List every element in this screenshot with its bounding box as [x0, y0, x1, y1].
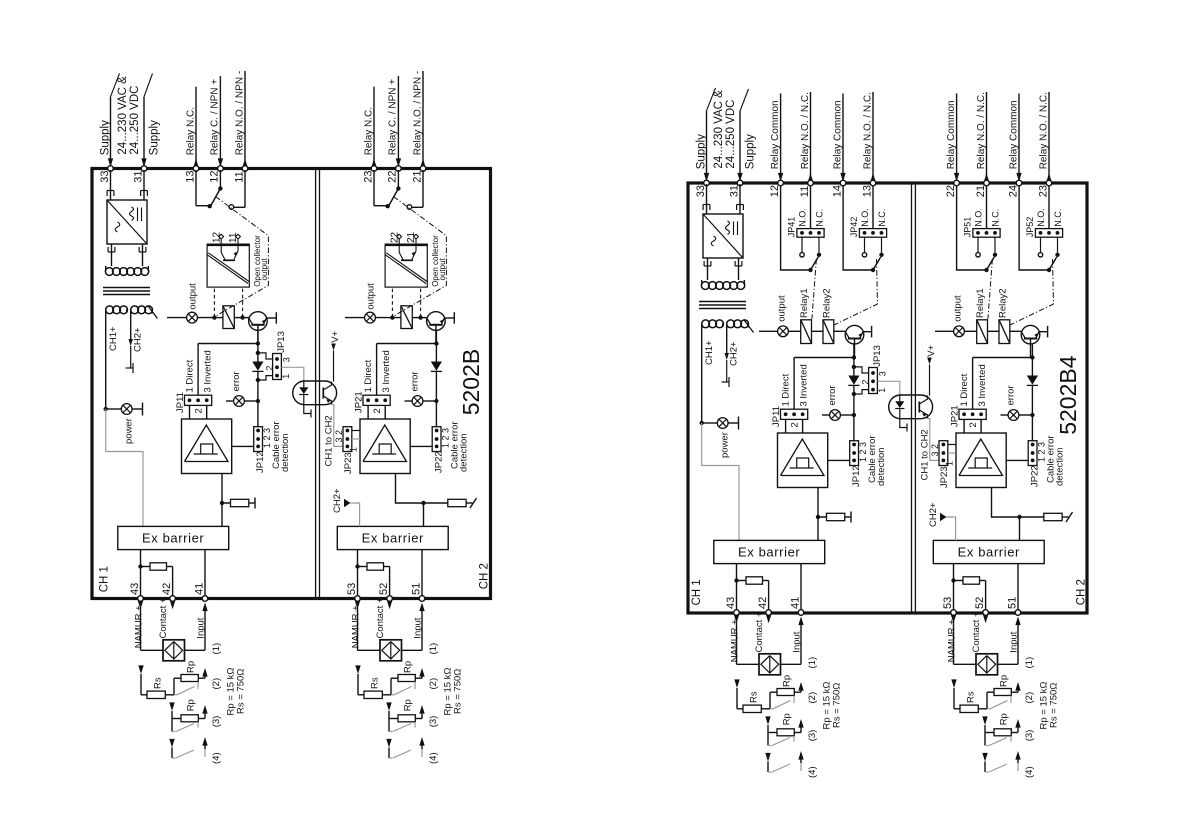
svg-text:3 2: 3 2: [334, 430, 344, 443]
svg-text:Supply: Supply: [695, 134, 707, 169]
svg-text:(4): (4): [428, 752, 439, 764]
svg-text:Relay C. / NPN +: Relay C. / NPN +: [210, 79, 221, 156]
svg-text:Relay N.O. / N.C.: Relay N.O. / N.C.: [862, 92, 873, 169]
svg-text:JP13: JP13: [872, 345, 883, 367]
svg-text:JP22: JP22: [433, 451, 444, 473]
svg-text:3 2: 3 2: [930, 444, 940, 457]
svg-text:JP52: JP52: [1025, 217, 1035, 238]
svg-text:Relay1: Relay1: [799, 288, 810, 318]
svg-text:V+: V+: [330, 330, 341, 342]
svg-text:(1): (1): [807, 657, 818, 669]
svg-text:N.O.: N.O.: [1036, 208, 1046, 227]
svg-text:JP11: JP11: [771, 406, 782, 427]
svg-text:JP11: JP11: [175, 392, 186, 413]
svg-text:(1): (1): [1024, 657, 1035, 669]
svg-text:52: 52: [974, 597, 986, 609]
svg-text:13: 13: [861, 185, 873, 197]
svg-text:output: output: [953, 295, 964, 322]
svg-text:(2): (2): [211, 678, 222, 690]
svg-text:CH2+: CH2+: [133, 327, 144, 352]
svg-text:NAMUR +: NAMUR +: [946, 619, 957, 662]
svg-text:Ex barrier: Ex barrier: [142, 531, 204, 546]
svg-text:detection: detection: [876, 447, 887, 486]
svg-text:N.C.: N.C.: [815, 209, 825, 227]
svg-text:11: 11: [228, 232, 239, 243]
svg-text:(1): (1): [211, 643, 222, 655]
svg-text:43: 43: [129, 583, 141, 595]
svg-text:(1): (1): [428, 643, 439, 655]
svg-text:51: 51: [1006, 597, 1018, 609]
svg-text:JP51: JP51: [962, 217, 972, 238]
svg-text:1: 1: [349, 447, 359, 452]
svg-text:NAMUR +: NAMUR +: [350, 605, 361, 648]
svg-text:CH 2: CH 2: [1075, 579, 1087, 605]
svg-text:CH1+: CH1+: [704, 340, 715, 365]
svg-text:Rp: Rp: [781, 713, 792, 725]
svg-text:3 Inverted: 3 Inverted: [381, 350, 392, 392]
svg-text:31: 31: [728, 185, 740, 197]
svg-text:N.O.: N.O.: [974, 208, 984, 227]
svg-text:JP13: JP13: [276, 331, 287, 353]
svg-text:(3): (3): [211, 716, 222, 728]
svg-text:error: error: [231, 371, 242, 391]
svg-text:Relay N.O. / N.C.: Relay N.O. / N.C.: [1038, 92, 1049, 169]
svg-text:detection: detection: [459, 433, 470, 472]
svg-text:1: 1: [281, 374, 291, 379]
svg-text:12: 12: [209, 170, 221, 182]
svg-text:Rs: Rs: [152, 677, 163, 689]
svg-text:(4): (4): [211, 752, 222, 764]
svg-text:Supply: Supply: [99, 120, 111, 155]
svg-text:Relay N.C.: Relay N.C.: [363, 107, 374, 155]
svg-text:31: 31: [132, 170, 144, 182]
svg-text:Relay N.C.: Relay N.C.: [185, 107, 196, 155]
svg-text:CH1+: CH1+: [108, 326, 119, 351]
svg-text:(3): (3): [807, 730, 818, 742]
svg-text:power: power: [720, 432, 731, 458]
svg-text:2: 2: [194, 408, 205, 413]
svg-text:CH 1: CH 1: [691, 579, 703, 605]
svg-text:Input: Input: [196, 617, 207, 638]
svg-text:41: 41: [193, 583, 205, 595]
svg-text:2: 2: [968, 422, 979, 427]
svg-text:output: output: [777, 295, 788, 322]
svg-text:53: 53: [346, 583, 358, 595]
svg-text:(2): (2): [1024, 692, 1035, 704]
svg-text:error: error: [410, 371, 421, 391]
svg-text:JP23: JP23: [343, 452, 354, 474]
svg-text:33: 33: [99, 170, 111, 182]
svg-text:CH 1: CH 1: [98, 566, 110, 592]
svg-text:NAMUR +: NAMUR +: [729, 619, 740, 662]
svg-text:14: 14: [831, 185, 843, 197]
svg-text:JP42: JP42: [849, 217, 859, 238]
svg-text:Relay N.O. / NPN -: Relay N.O. / NPN -: [234, 71, 245, 155]
svg-text:NAMUR +: NAMUR +: [133, 605, 144, 648]
svg-text:42: 42: [757, 597, 769, 609]
svg-text:(4): (4): [1024, 766, 1035, 778]
svg-text:3 Inverted: 3 Inverted: [798, 364, 809, 406]
svg-text:2: 2: [264, 366, 274, 371]
svg-text:detection: detection: [1055, 447, 1066, 486]
svg-text:Rp: Rp: [185, 661, 196, 673]
svg-text:N.O.: N.O.: [798, 208, 808, 227]
svg-text:JP41: JP41: [786, 217, 796, 238]
svg-text:JP22: JP22: [1029, 465, 1040, 487]
svg-text:1: 1: [877, 388, 887, 393]
svg-text:(3): (3): [428, 716, 439, 728]
svg-text:23: 23: [362, 170, 374, 182]
svg-text:2: 2: [372, 408, 383, 413]
svg-text:detection: detection: [280, 433, 291, 472]
svg-text:Relay C. / NPN +: Relay C. / NPN +: [388, 79, 399, 156]
svg-text:output: output: [366, 283, 377, 310]
svg-text:Input: Input: [792, 631, 803, 652]
svg-text:2: 2: [790, 422, 801, 427]
svg-text:Contact +: Contact +: [158, 597, 169, 638]
svg-text:JP21: JP21: [950, 405, 961, 427]
svg-text:(4): (4): [807, 766, 818, 778]
svg-text:N.C.: N.C.: [1053, 209, 1063, 227]
svg-text:1 Direct: 1 Direct: [184, 359, 195, 392]
svg-text:12: 12: [211, 231, 222, 243]
svg-text:Relay Common: Relay Common: [770, 100, 781, 169]
svg-text:51: 51: [410, 583, 422, 595]
svg-text:N.C.: N.C.: [991, 209, 1001, 227]
svg-text:CH2+: CH2+: [332, 488, 343, 513]
svg-text:Rs: Rs: [369, 677, 380, 689]
svg-text:5202B4: 5202B4: [1055, 355, 1081, 435]
svg-text:22: 22: [387, 170, 399, 182]
svg-text:1 Direct: 1 Direct: [780, 373, 791, 406]
svg-text:3: 3: [282, 357, 292, 362]
svg-text:24...250 VDC: 24...250 VDC: [725, 100, 737, 169]
svg-text:13: 13: [184, 170, 196, 182]
svg-text:53: 53: [942, 597, 954, 609]
svg-text:Relay2: Relay2: [821, 288, 832, 318]
svg-text:1: 1: [945, 461, 955, 466]
svg-text:power: power: [124, 418, 135, 444]
svg-text:33: 33: [695, 185, 707, 197]
svg-text:(2): (2): [807, 692, 818, 704]
svg-text:22: 22: [945, 185, 957, 197]
svg-text:1 Direct: 1 Direct: [363, 359, 374, 392]
svg-text:11: 11: [799, 186, 811, 197]
svg-text:output: output: [260, 257, 269, 280]
svg-text:42: 42: [161, 583, 173, 595]
svg-text:Relay2: Relay2: [997, 288, 1008, 318]
svg-text:Ex barrier: Ex barrier: [958, 545, 1020, 560]
svg-text:JP21: JP21: [354, 391, 365, 413]
svg-text:Contact +: Contact +: [754, 611, 765, 652]
svg-text:21: 21: [975, 185, 987, 197]
svg-text:Rp: Rp: [402, 661, 413, 673]
svg-text:N.O.: N.O.: [860, 208, 870, 227]
svg-text:N.C.: N.C.: [877, 209, 887, 227]
svg-text:Contact +: Contact +: [971, 611, 982, 652]
svg-text:Rs = 750Ω: Rs = 750Ω: [236, 669, 247, 714]
svg-text:Rp: Rp: [402, 699, 413, 711]
svg-text:Ex barrier: Ex barrier: [738, 545, 800, 560]
svg-text:Supply: Supply: [148, 120, 160, 155]
svg-text:JP12: JP12: [255, 451, 266, 473]
svg-text:5202B: 5202B: [458, 349, 484, 416]
svg-text:Rs: Rs: [748, 691, 759, 703]
svg-text:Rp: Rp: [781, 675, 792, 687]
svg-text:Relay1: Relay1: [975, 288, 986, 318]
svg-text:Rs: Rs: [965, 691, 976, 703]
svg-text:error: error: [827, 385, 838, 405]
svg-text:(2): (2): [428, 678, 439, 690]
svg-text:Input: Input: [413, 617, 424, 638]
svg-text:Rp: Rp: [998, 713, 1009, 725]
svg-text:JP12: JP12: [851, 465, 862, 487]
svg-text:Relay N.O. / N.C.: Relay N.O. / N.C.: [976, 92, 987, 169]
svg-text:Relay N.O. / NPN -: Relay N.O. / NPN -: [412, 71, 423, 155]
svg-text:24...230 VAC &: 24...230 VAC &: [713, 90, 725, 169]
svg-text:24...230 VAC &: 24...230 VAC &: [117, 76, 129, 155]
svg-text:Rs = 750Ω: Rs = 750Ω: [832, 683, 843, 728]
svg-text:22: 22: [389, 231, 400, 243]
svg-text:23: 23: [1037, 185, 1049, 197]
svg-text:output: output: [438, 257, 447, 280]
svg-text:24: 24: [1007, 185, 1019, 197]
svg-text:Relay N.O. / N.C.: Relay N.O. / N.C.: [800, 92, 811, 169]
svg-text:Rp: Rp: [185, 699, 196, 711]
svg-text:52: 52: [378, 583, 390, 595]
svg-text:Rs = 750Ω: Rs = 750Ω: [1049, 683, 1060, 728]
svg-text:Supply: Supply: [744, 134, 756, 169]
svg-text:(3): (3): [1024, 730, 1035, 742]
svg-text:V+: V+: [926, 344, 937, 356]
svg-text:Ex barrier: Ex barrier: [362, 531, 424, 546]
svg-text:2: 2: [860, 380, 870, 385]
svg-text:43: 43: [725, 597, 737, 609]
svg-text:Input: Input: [1009, 631, 1020, 652]
svg-text:Rs = 750Ω: Rs = 750Ω: [453, 669, 464, 714]
svg-text:24...250 VDC: 24...250 VDC: [129, 86, 141, 155]
svg-text:12: 12: [769, 185, 781, 197]
svg-text:Relay Common: Relay Common: [832, 100, 843, 169]
svg-text:21: 21: [411, 170, 423, 182]
svg-text:JP23: JP23: [939, 466, 950, 488]
svg-text:41: 41: [789, 597, 801, 609]
svg-text:Relay Common: Relay Common: [1008, 100, 1019, 169]
svg-text:3 Inverted: 3 Inverted: [202, 350, 213, 392]
svg-text:3 Inverted: 3 Inverted: [977, 364, 988, 406]
svg-text:CH2+: CH2+: [928, 502, 939, 527]
svg-text:error: error: [1006, 385, 1017, 405]
svg-text:3: 3: [878, 371, 888, 376]
svg-text:Rp: Rp: [998, 675, 1009, 687]
svg-text:21: 21: [406, 231, 417, 243]
svg-text:11: 11: [233, 171, 245, 182]
svg-text:1 Direct: 1 Direct: [959, 373, 970, 406]
svg-text:CH 2: CH 2: [478, 563, 490, 589]
svg-text:output: output: [188, 283, 199, 310]
svg-text:Relay Common: Relay Common: [946, 100, 957, 169]
svg-text:Contact +: Contact +: [375, 597, 386, 638]
svg-text:CH2+: CH2+: [729, 341, 740, 366]
